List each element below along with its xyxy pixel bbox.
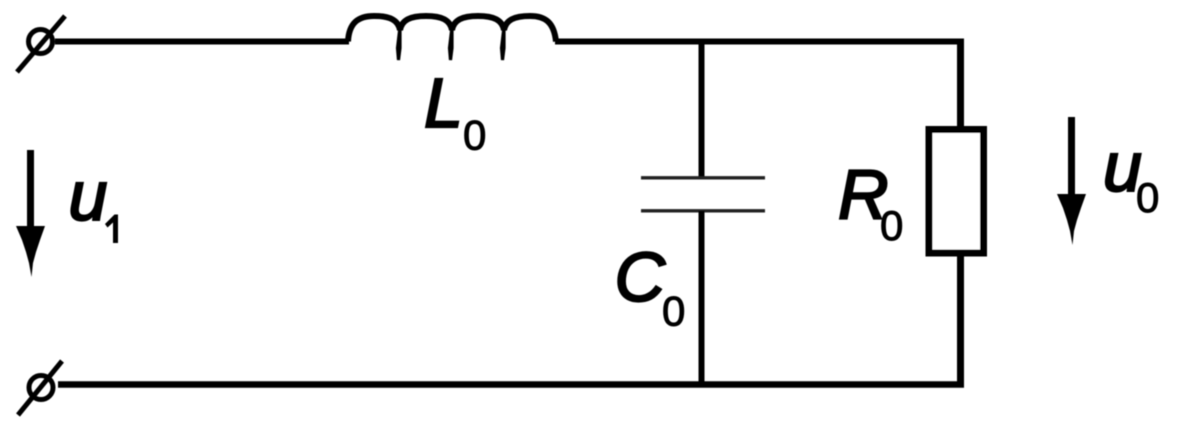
svg-text:u: u [69,157,108,235]
svg-text:0: 0 [880,202,903,249]
svg-text:C: C [615,238,666,316]
svg-text:0: 0 [662,288,685,335]
svg-text:0: 0 [463,112,486,159]
svg-text:L: L [424,64,463,142]
svg-text:0: 0 [1136,174,1159,221]
